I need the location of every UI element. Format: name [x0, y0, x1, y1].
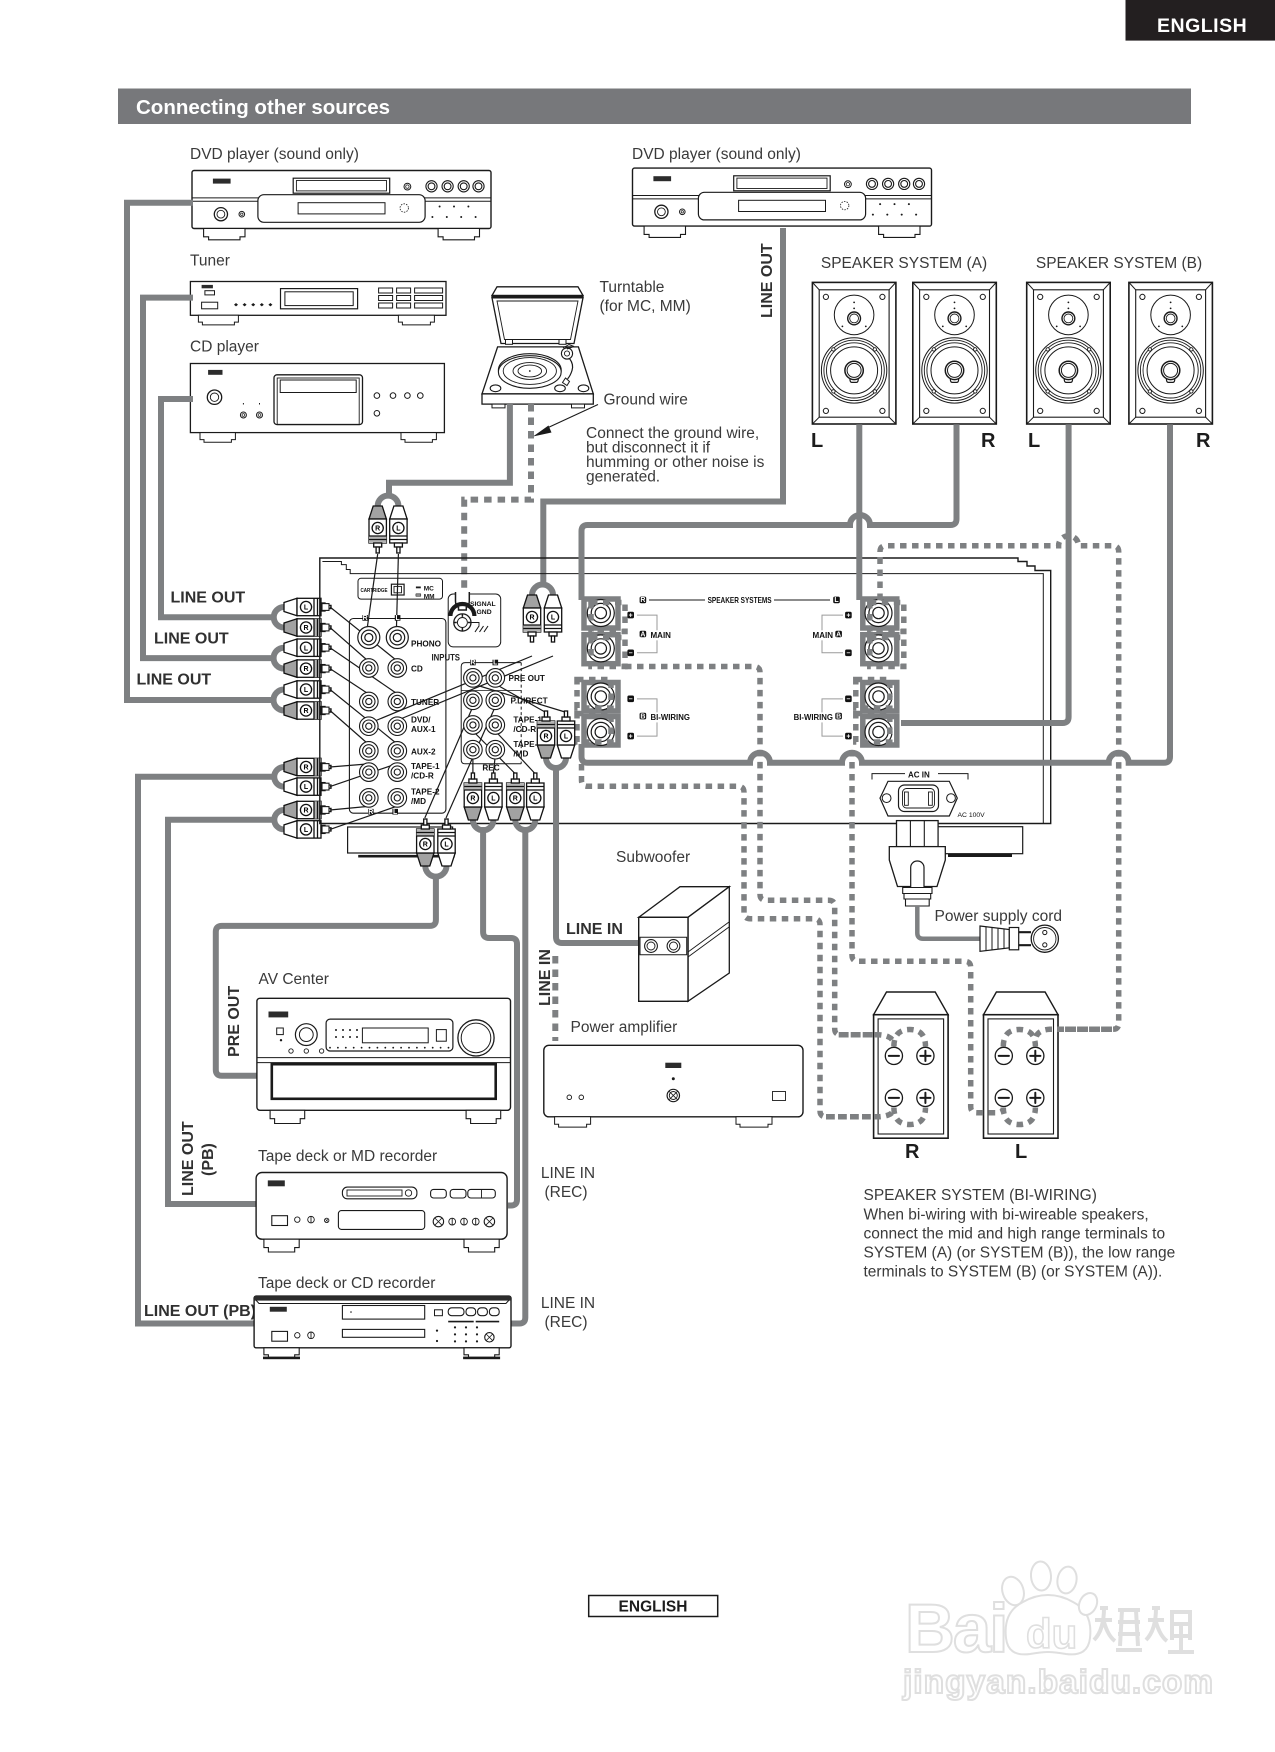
svg-text:Power supply cord: Power supply cord — [935, 908, 1063, 925]
RCA plug L at amp left input — [284, 821, 331, 838]
svg-text:R: R — [513, 796, 518, 803]
svg-text:PRE OUT: PRE OUT — [509, 674, 545, 683]
svg-text:BI-WIRING: BI-WIRING — [794, 713, 833, 722]
wire: DVD player 2 line out — [532, 228, 783, 595]
wire: CD player line out — [161, 399, 284, 628]
dashed wire: left bi-wiring terminals to speaker R bottom — [577, 680, 926, 1125]
svg-text:INPUTS: INPUTS — [432, 653, 461, 663]
svg-text:LINE OUT (PB): LINE OUT (PB) — [144, 1303, 256, 1320]
svg-text:PRE OUT: PRE OUT — [226, 986, 243, 1057]
speaker terminal jacks (L group bi-wiring) — [865, 683, 892, 710]
svg-text:REC: REC — [482, 764, 499, 773]
svg-text:AC 100V: AC 100V — [958, 812, 986, 819]
tape deck / MD recorder unit — [256, 1173, 507, 1253]
svg-text:R: R — [905, 1141, 920, 1163]
bi-wiring speaker R — [874, 992, 949, 1138]
svg-text:Bai: Bai — [905, 1590, 1006, 1667]
svg-text:SPEAKER SYSTEM (BI-WIRING): SPEAKER SYSTEM (BI-WIRING) — [864, 1187, 1097, 1204]
svg-text:PHONO: PHONO — [411, 640, 442, 649]
svg-text:L: L — [1028, 430, 1040, 452]
wire: Tuner line out — [143, 298, 284, 669]
svg-text:SPEAKER SYSTEM (A): SPEAKER SYSTEM (A) — [821, 255, 987, 272]
svg-text:R: R — [543, 734, 548, 741]
jack labels — [411, 640, 442, 807]
AC inlet — [880, 781, 957, 816]
svg-text:TAPE-2: TAPE-2 — [411, 788, 440, 797]
speaker systems header line — [649, 599, 830, 601]
svg-text:P.DIRECT: P.DIRECT — [511, 697, 548, 706]
B BI-WIRING labels (R group) — [627, 696, 690, 741]
svg-text:/CD-R: /CD-R — [513, 725, 536, 734]
dashed wire entries into bi-wiring speakers — [826, 1029, 1112, 1124]
input jacks: AUX-2 — [360, 742, 379, 761]
signal gnd box — [448, 592, 501, 647]
inputs panel — [349, 619, 446, 814]
pre out panel — [461, 660, 521, 764]
svg-text:LINE IN: LINE IN — [537, 949, 554, 1006]
wire: pre out to subwoofer — [546, 758, 639, 943]
svg-text:terminals to SYSTEM (B) (or SY: terminals to SYSTEM (B) (or SYSTEM (A)). — [864, 1264, 1163, 1281]
svg-text:L: L — [1015, 1141, 1027, 1163]
svg-text:AUX-1: AUX-1 — [411, 725, 436, 734]
svg-text:SIGNAL: SIGNAL — [470, 601, 496, 608]
svg-text:Subwoofer: Subwoofer — [616, 849, 690, 866]
svg-text:R: R — [1196, 430, 1211, 452]
speaker terminal jacks (R group bi-wiring) — [587, 683, 614, 710]
svg-text:GND: GND — [477, 609, 492, 616]
title bar: Connecting other sources — [118, 89, 1191, 125]
DVD player 1 — [192, 171, 491, 240]
svg-text:Connecting other sources: Connecting other sources — [136, 96, 390, 119]
svg-text:L: L — [444, 842, 449, 849]
svg-text:ENGLISH: ENGLISH — [619, 1599, 688, 1616]
svg-text:R: R — [368, 809, 373, 816]
svg-text:LINE OUT: LINE OUT — [759, 243, 776, 318]
svg-text:R: R — [303, 808, 308, 815]
speaker terminal jacks (L group main) — [865, 600, 892, 627]
ENGLISH page footer box — [589, 1596, 718, 1617]
svg-text:du: du — [1026, 1610, 1077, 1657]
svg-text:R: R — [303, 708, 308, 715]
svg-text:DVD/: DVD/ — [411, 716, 431, 725]
svg-text:L: L — [564, 734, 569, 741]
svg-text:/MD: /MD — [513, 750, 528, 759]
svg-text:Tape deck or CD recorder: Tape deck or CD recorder — [258, 1275, 435, 1292]
svg-text:+: + — [846, 612, 850, 619]
power cord — [917, 906, 981, 939]
svg-text:L: L — [493, 660, 498, 667]
svg-text:L: L — [491, 796, 496, 803]
turntable — [482, 287, 593, 408]
svg-text:/MD: /MD — [411, 797, 426, 806]
svg-text:L: L — [393, 809, 398, 816]
svg-text:R: R — [303, 625, 308, 632]
thin leads: stubs to jacks — [330, 554, 565, 829]
dashed wire: main L terminals to speaker L top — [870, 536, 1119, 1047]
subwoofer cabinet — [639, 887, 730, 1002]
svg-text:Tuner: Tuner — [190, 253, 230, 270]
dashed wire: to power amplifier — [552, 956, 558, 1041]
svg-text:R: R — [423, 842, 428, 849]
svg-text:L: L — [396, 526, 401, 533]
wire: speaker B-L to bi-wiring R... (right group) — [901, 424, 1069, 723]
svg-text:TUNER: TUNER — [411, 698, 439, 707]
wire: turntable audio to phono — [378, 404, 510, 506]
CD player — [190, 364, 444, 443]
speaker A-L cabinet — [812, 282, 896, 424]
arrow to ground wire — [545, 405, 598, 430]
power amplifier unit — [544, 1045, 803, 1127]
tape-2 rec jacks — [464, 740, 483, 759]
svg-text:DVD player (sound only): DVD player (sound only) — [632, 146, 801, 163]
RCA plug L at amp left input — [284, 778, 331, 795]
svg-text:Tape deck or MD recorder: Tape deck or MD recorder — [258, 1148, 437, 1165]
svg-text:AV Center: AV Center — [259, 971, 329, 988]
RCA plug R at amp left input — [284, 660, 331, 677]
wire: tape-1 to CD recorder — [138, 767, 284, 1324]
svg-text:CD player: CD player — [190, 339, 259, 356]
speaker B-R cabinet — [1129, 282, 1213, 424]
svg-text:–: – — [629, 650, 633, 657]
input jacks: DVD/AUX-1 — [360, 717, 379, 736]
svg-text:MM: MM — [424, 594, 435, 601]
input jacks: PHONO — [358, 627, 380, 649]
wire: tape-1 rec to MD deck line in — [473, 820, 517, 1206]
svg-text:+: + — [629, 733, 633, 740]
svg-text:L: L — [304, 605, 309, 612]
tape-1 rec jacks — [464, 716, 483, 735]
amp bottom black strip — [358, 855, 455, 858]
svg-text:R: R — [470, 660, 475, 667]
wire: tape-2 to MD recorder — [168, 810, 284, 1204]
wire: speaker A-L to main L terminals — [856, 424, 862, 600]
svg-text:LINE IN: LINE IN — [541, 1295, 595, 1312]
svg-text:A: A — [836, 631, 841, 638]
pre out labels — [482, 674, 547, 773]
B BI-WIRING labels (L group) — [790, 696, 852, 741]
svg-text:L: L — [304, 645, 309, 652]
RCA plug R at amp left input — [284, 619, 331, 636]
svg-text:/CD-R: /CD-R — [411, 772, 434, 781]
svg-text:connect the mid and high range: connect the mid and high range terminals… — [864, 1226, 1166, 1243]
svg-text:L: L — [551, 615, 556, 622]
svg-text:CD: CD — [411, 665, 423, 674]
svg-text:R: R — [375, 526, 380, 533]
2-prong plug — [980, 925, 1058, 952]
svg-text:L: L — [304, 784, 309, 791]
svg-text:SPEAKER SYSTEMS: SPEAKER SYSTEMS — [708, 596, 772, 605]
svg-text:LINE IN: LINE IN — [566, 921, 623, 938]
note: speaker system bi-wiring — [864, 1187, 1176, 1281]
speaker B-L cabinet — [1027, 282, 1111, 424]
input jacks: TAPE-2/MD — [360, 789, 379, 808]
A MAIN labels (R group) — [627, 612, 671, 657]
bi-wiring speaker L — [984, 992, 1059, 1138]
RCA plug L at amp left input — [284, 639, 331, 656]
svg-text:AUX-2: AUX-2 — [411, 748, 436, 757]
RCA plug L turntable to phono — [390, 506, 407, 553]
wire: DVD player 1 line out — [127, 203, 284, 711]
RCA plug R at amp left input — [284, 801, 331, 818]
RCA plug L at amp left input — [284, 681, 331, 698]
RCA plug L at amp left input — [284, 598, 331, 615]
svg-text:R: R — [529, 615, 534, 622]
svg-text:BI-WIRING: BI-WIRING — [651, 713, 690, 722]
svg-text:ENGLISH: ENGLISH — [1157, 15, 1247, 37]
svg-text:L: L — [533, 796, 538, 803]
tape deck / CD recorder unit — [254, 1296, 511, 1359]
svg-text:Ground wire: Ground wire — [604, 392, 688, 409]
svg-text:MAIN: MAIN — [651, 631, 672, 640]
svg-text:R: R — [981, 430, 996, 452]
svg-text:When bi-wiring with bi-wireabl: When bi-wiring with bi-wireable speakers… — [864, 1207, 1149, 1224]
A MAIN labels (L group) — [810, 612, 852, 657]
svg-text:+: + — [629, 612, 633, 619]
svg-text:R: R — [303, 666, 308, 673]
svg-text:(for MC, MM): (for MC, MM) — [600, 298, 691, 315]
svg-text:LINE OUT: LINE OUT — [154, 631, 229, 648]
svg-text:CARTRIDGE: CARTRIDGE — [361, 588, 388, 594]
svg-text:SPEAKER SYSTEM (B): SPEAKER SYSTEM (B) — [1036, 255, 1202, 272]
DVD player 2 — [633, 168, 932, 237]
svg-text:jingyan.baidu.com: jingyan.baidu.com — [902, 1664, 1214, 1701]
svg-text:–: – — [629, 696, 633, 703]
svg-text:L: L — [834, 597, 839, 604]
svg-text:–: – — [846, 696, 850, 703]
svg-text:LINE OUT: LINE OUT — [137, 672, 212, 689]
input jacks: TUNER — [360, 692, 379, 711]
pre out jacks — [464, 669, 483, 688]
RCA plugs p.direct out — [417, 819, 434, 866]
svg-text:(REC): (REC) — [544, 1314, 587, 1331]
RCA plugs rec out (R L R L) — [464, 773, 481, 820]
ground wire (dashed) — [464, 404, 531, 591]
AV center unit — [257, 998, 511, 1123]
input jacks: CD — [360, 659, 379, 678]
amplifier rear panel outline — [320, 558, 1051, 824]
svg-text:SYSTEM (A) (or SYSTEM (B)), th: SYSTEM (A) (or SYSTEM (B)), the low rang… — [864, 1245, 1176, 1262]
svg-text:AC IN: AC IN — [908, 771, 930, 780]
svg-text:+: + — [846, 733, 850, 740]
svg-text:DVD player (sound only): DVD player (sound only) — [190, 146, 359, 163]
wire: tape-2 rec to CD recorder line in — [510, 820, 535, 1324]
RCA plug L DVD2 to input — [544, 595, 561, 642]
terminal marker: R — [640, 597, 647, 605]
RCA plugs pre out (subwoofer) — [537, 711, 554, 758]
svg-text:Turntable: Turntable — [600, 279, 665, 296]
wire: speaker A-R to main R terminals — [582, 424, 957, 600]
RCA plug R at amp left input — [284, 758, 331, 775]
amp bottom chassis bar — [348, 827, 453, 853]
wire: p.direct to AV center (pre out) — [216, 866, 447, 1076]
svg-text:B: B — [640, 713, 645, 720]
svg-text:MC: MC — [424, 586, 434, 593]
tuner — [190, 282, 446, 325]
cartridge box — [358, 578, 443, 600]
speaker A-R cabinet — [913, 282, 997, 424]
p.direct jacks — [464, 691, 483, 710]
power plug block — [889, 821, 1022, 906]
svg-text:LINE IN: LINE IN — [541, 1165, 595, 1182]
svg-text:R: R — [303, 765, 308, 772]
svg-text:LINE OUT: LINE OUT — [171, 590, 246, 607]
ENGLISH tab (top right) — [1126, 0, 1275, 41]
svg-text:MAIN: MAIN — [813, 631, 834, 640]
svg-text:(REC): (REC) — [544, 1184, 587, 1201]
watermark chinese chars (stylized) — [1094, 1608, 1194, 1652]
dashed wire: main R terminals to speaker R top (bi-wiring) — [591, 603, 926, 1047]
svg-text:R: R — [363, 615, 368, 622]
svg-text:L: L — [395, 615, 400, 622]
svg-text:–: – — [846, 650, 850, 657]
input jacks: TAPE-1/CD-R — [360, 763, 379, 782]
svg-text:TAPE-1: TAPE-1 — [411, 762, 440, 771]
svg-text:L: L — [304, 827, 309, 834]
speaker terminal jacks (R group main) — [587, 600, 614, 627]
RCA plug R DVD2 to input — [523, 595, 540, 642]
svg-text:B: B — [836, 713, 841, 720]
svg-text:generated.: generated. — [586, 469, 660, 486]
svg-text:L: L — [811, 430, 823, 452]
svg-text:R: R — [470, 796, 475, 803]
svg-text:(PB): (PB) — [200, 1143, 217, 1176]
svg-text:L: L — [304, 687, 309, 694]
RCA plug R turntable to phono — [369, 506, 386, 553]
wire: left bi-wiring terminals to speaker B-R — [584, 683, 618, 746]
AC IN bracket — [872, 774, 968, 780]
R/L markers input panel — [362, 615, 400, 816]
baidu watermark — [902, 1561, 1214, 1701]
svg-text:A: A — [640, 631, 645, 638]
dashed wire: right bi-wiring terminals to speaker L bottom — [852, 680, 1035, 1125]
svg-text:R: R — [640, 597, 645, 604]
svg-text:LINE OUT: LINE OUT — [180, 1121, 197, 1196]
RCA plug R at amp left input — [284, 702, 331, 719]
terminal marker: L — [833, 597, 840, 605]
svg-text:Power amplifier: Power amplifier — [571, 1019, 678, 1036]
